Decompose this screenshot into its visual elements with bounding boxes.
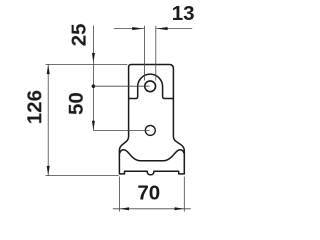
hole H2 (lower): [145, 125, 155, 135]
extension line: dim 13 right: [155, 26, 157, 81]
part outline (bracket silhouette): [119, 65, 184, 175]
arrow left (13 right): [157, 27, 168, 30]
extension line: bottom of part (dim 126): [46, 175, 119, 177]
inner saddle contour (shoulders and valley): [119, 150, 184, 161]
extension line: dim 13 left: [143, 26, 145, 81]
dimension line 70: [113, 208, 191, 210]
svg-text:25: 25: [68, 23, 91, 46]
dimension line 13 right tail: [156, 28, 192, 30]
arrow right (70 right end): [175, 207, 185, 210]
arrow down (50 at hole H2 centre): [92, 121, 95, 131]
arrow down (126 bottom): [47, 166, 50, 176]
arrow left (70 left end): [120, 207, 130, 210]
hole H1 (upper, dia 13): [145, 81, 156, 92]
svg-text:50: 50: [65, 92, 88, 115]
svg-text:126: 126: [23, 90, 46, 124]
arrow down (25 at top edge): [92, 53, 95, 63]
arrow right (13 left): [132, 27, 143, 30]
arrow up (126 top): [47, 65, 50, 75]
extension line: hole H1 centre: [93, 85, 149, 87]
extension line: dim 70 left: [118, 177, 120, 212]
ledge with arch boss: [129, 74, 174, 98]
extension line: hole H2 centre: [93, 129, 149, 131]
dimension line 13 left tail: [114, 28, 144, 30]
svg-text:70: 70: [137, 182, 160, 205]
dimension line 25/50 chain: [92, 26, 94, 131]
svg-text:13: 13: [172, 2, 195, 25]
extension line: dim 70 right: [183, 177, 185, 212]
chain dot (25/50 at hole H1 centre): [92, 84, 96, 88]
dimension line 126: [47, 64, 49, 175]
extension line: top edge (shared by dims 126 and 25): [46, 63, 128, 65]
